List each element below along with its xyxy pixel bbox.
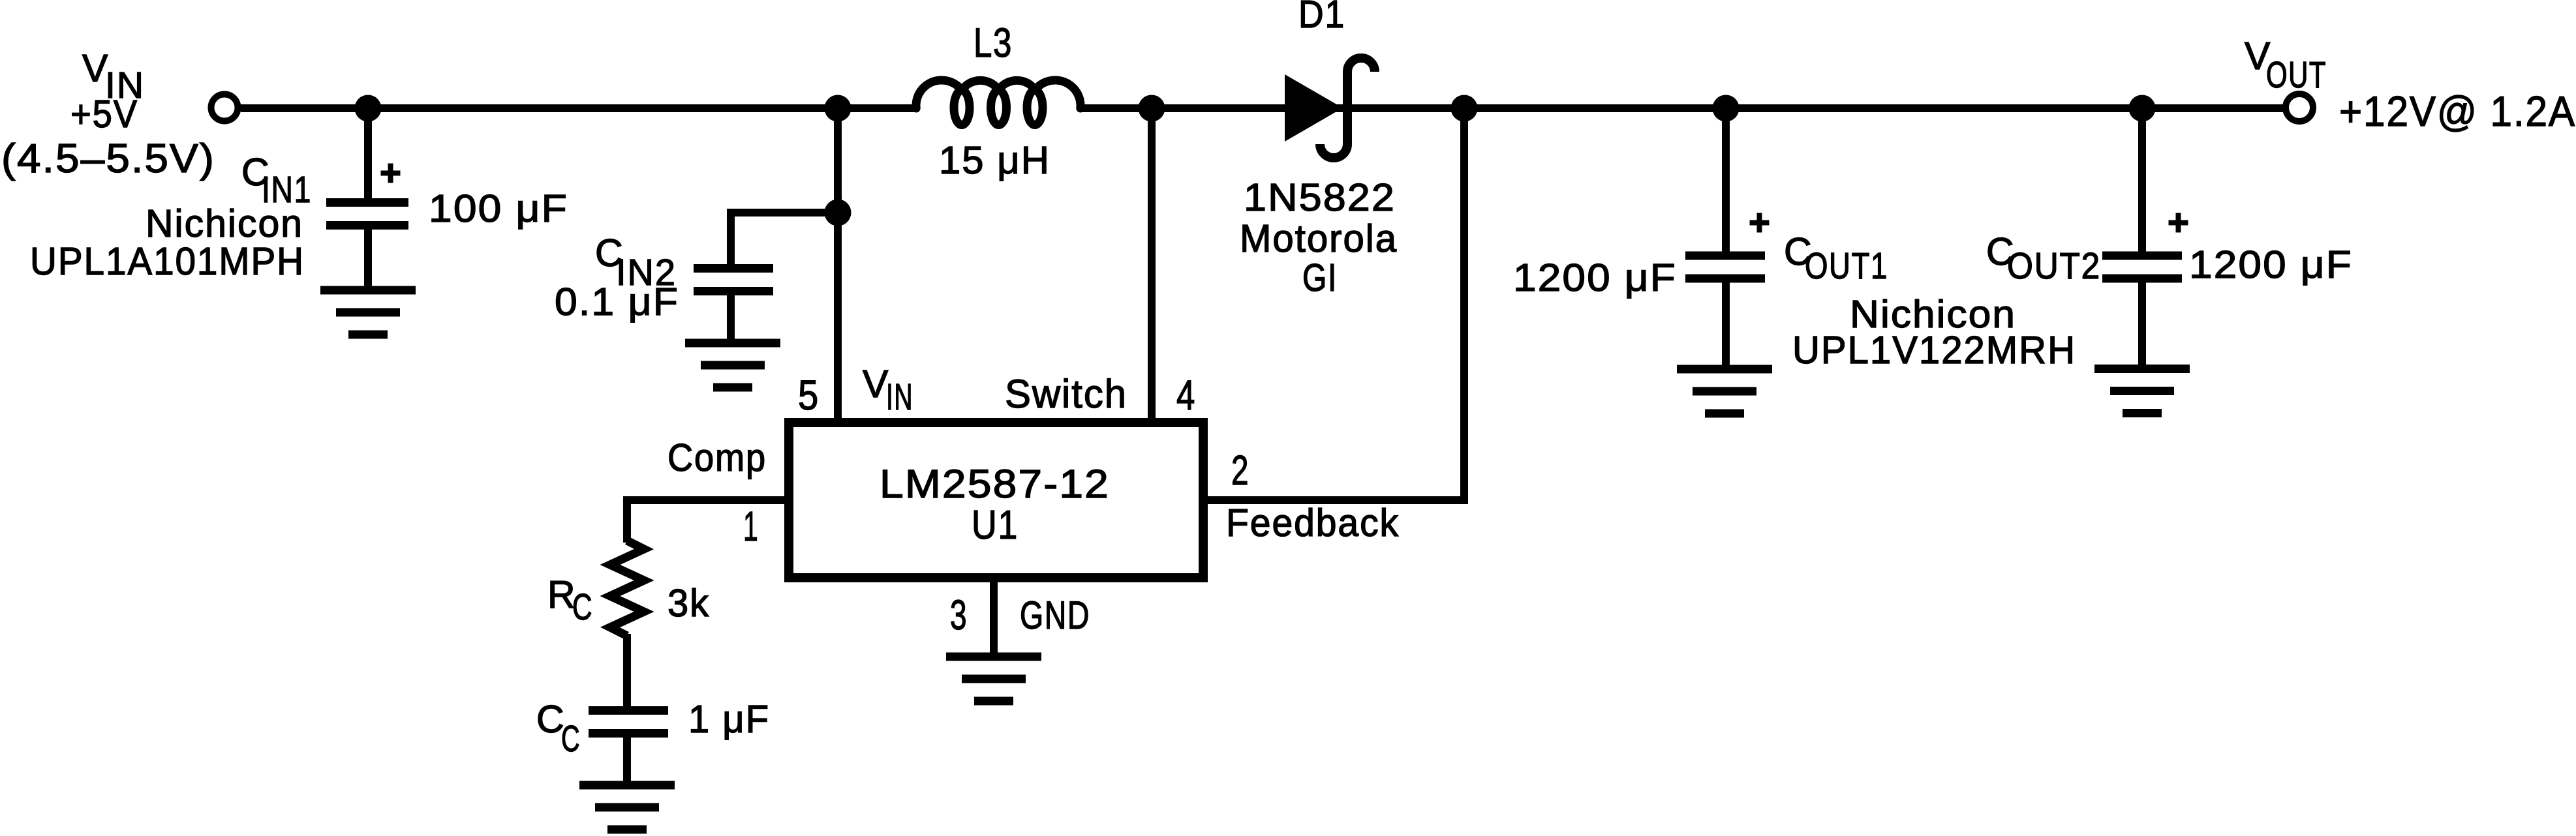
svg-text:5: 5 (798, 372, 820, 419)
svg-text:IN: IN (886, 376, 913, 418)
wire L3 junction down to pin 5 (834, 108, 842, 423)
svg-text:Nichicon: Nichicon (146, 202, 303, 245)
wire COUT2 to ground (2138, 278, 2146, 368)
ground COUT2 (2094, 369, 2190, 413)
svg-text:U1: U1 (972, 503, 1019, 548)
wire switch junction down to pin 4 (1148, 108, 1156, 423)
ground CC (579, 785, 675, 829)
capacitor COUT1 (1685, 256, 1765, 278)
svg-text:1: 1 (743, 503, 759, 550)
output terminal (2286, 94, 2313, 121)
wire feedback pin 2 to diode output (1204, 108, 1464, 500)
svg-text:(4.5–5.5V): (4.5–5.5V) (1, 136, 215, 181)
ground U1 GND (946, 657, 1041, 701)
wire CIN2 down (727, 209, 735, 269)
ground CIN1 (320, 290, 416, 335)
svg-text:GI: GI (1302, 256, 1338, 299)
node CIN1 junction (355, 95, 382, 122)
wire comp down to RC (623, 496, 631, 543)
svg-text:Comp: Comp (667, 436, 767, 479)
wire RC to CC (623, 634, 631, 711)
svg-text:1200 μF: 1200 μF (2189, 243, 2353, 286)
ground COUT1 (1677, 369, 1772, 413)
svg-text:Feedback: Feedback (1226, 501, 1400, 545)
svg-text:LM2587-12: LM2587-12 (880, 462, 1110, 506)
input terminal (211, 95, 238, 121)
node switch junction (1139, 95, 1165, 122)
svg-text:Motorola: Motorola (1240, 217, 1398, 260)
svg-text:UPL1A101MPH: UPL1A101MPH (30, 240, 305, 283)
svg-text:0.1 μF: 0.1 μF (555, 280, 679, 323)
svg-text:3k: 3k (667, 582, 710, 625)
resistor RC (610, 541, 644, 636)
wire comp pin (627, 496, 784, 504)
svg-text:C: C (572, 586, 593, 628)
plus polarity CIN1 (381, 164, 401, 183)
wire CC to ground (623, 734, 631, 785)
svg-text:2: 2 (1231, 447, 1250, 494)
capacitor CIN2 (694, 269, 773, 291)
svg-text:Switch: Switch (1005, 372, 1127, 416)
plus polarity COUT1 (1750, 213, 1770, 233)
svg-text:D1: D1 (1298, 0, 1345, 36)
node COUT1 junction (1713, 95, 1740, 122)
svg-text:15 μH: 15 μH (939, 139, 1050, 182)
capacitor COUT2 (2102, 256, 2182, 278)
svg-text:1200 μF: 1200 μF (1513, 256, 1677, 299)
svg-text:OUT: OUT (2266, 54, 2327, 96)
svg-text:OUT1: OUT1 (1805, 245, 1888, 287)
wire CIN1 down (364, 108, 372, 203)
wire COUT2 down (2138, 108, 2146, 256)
wire COUT1 down (1722, 108, 1730, 256)
svg-text:L3: L3 (974, 20, 1013, 66)
wire GND pin down (990, 582, 998, 656)
capacitor CC (589, 711, 668, 734)
wire COUT1 to ground (1722, 278, 1730, 369)
node CIN2 junction (825, 200, 851, 226)
svg-text:100 μF: 100 μF (429, 187, 568, 230)
svg-text:4: 4 (1176, 372, 1196, 419)
plus polarity COUT2 (2169, 213, 2188, 233)
svg-text:+12V@ 1.2A: +12V@ 1.2A (2339, 87, 2576, 135)
node COUT2 junction (2129, 95, 2156, 122)
svg-text:UPL1V122MRH: UPL1V122MRH (1792, 329, 2076, 372)
node diode output junction (1451, 95, 1478, 122)
svg-text:1N5822: 1N5822 (1244, 176, 1396, 219)
capacitor CIN1 (326, 203, 408, 226)
svg-text:1 μF: 1 μF (688, 698, 770, 741)
op-amp U1 LM2587-12 box (789, 423, 1203, 578)
svg-text:3: 3 (950, 591, 968, 638)
diode D1 anode triangle (1285, 74, 1343, 142)
wire CIN2 to ground (727, 291, 735, 343)
ground CIN2 (685, 343, 780, 387)
diode D1 schottky cathode bar (1320, 58, 1375, 158)
inductor L3 (916, 80, 1081, 125)
wire CIN1 to ground (364, 230, 372, 290)
svg-text:OUT2: OUT2 (2007, 245, 2101, 287)
svg-text:C: C (561, 718, 581, 760)
node L3 left junction (825, 95, 851, 122)
wire top rail L3 to VOUT (1078, 104, 2283, 112)
wire CIN2 stub (731, 209, 842, 216)
svg-text:GND: GND (1020, 593, 1090, 637)
svg-text:+5V: +5V (70, 93, 138, 136)
wire top rail VIN to L3 (241, 104, 919, 112)
